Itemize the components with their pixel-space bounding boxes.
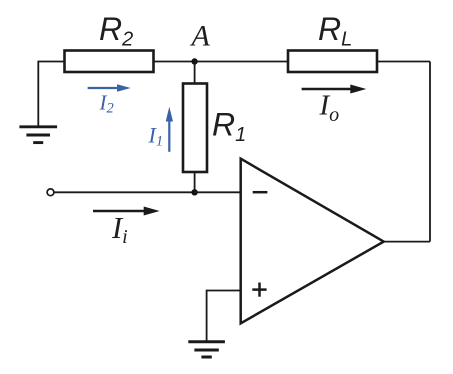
wire R2 to node A [154,61,195,63]
wire op-amp output [384,241,430,243]
node junction dot (input/R1) [191,189,197,195]
current arrow Ii [93,207,160,248]
current arrow I2 [88,84,131,116]
op-amp U1 [241,159,384,324]
current arrow I1 [148,107,174,152]
svg-text:A: A [190,20,211,53]
input terminal [47,189,54,196]
resistor R2 [65,51,154,73]
wire input to node [54,191,195,193]
wire RL right lead [377,61,430,63]
wire node A to RL [195,61,288,63]
ground (bottom, GND2) [188,342,225,357]
ground (left, GND1) [19,127,57,143]
wire R2 left lead to ground [38,62,64,127]
wire R1 bottom to input node [194,172,196,192]
wire right vertical feedback [429,62,431,242]
op-amp plus pin label [252,283,266,297]
wire node to op-amp inverting input [195,191,241,193]
resistor R1 [183,84,207,173]
node A junction dot [191,58,197,64]
wire op-amp non-inverting input to ground [207,291,241,342]
current arrow Io [302,85,367,127]
resistor RL [288,51,377,73]
wire node A to R1 top [194,62,196,84]
op-amp minus pin label [253,191,268,194]
